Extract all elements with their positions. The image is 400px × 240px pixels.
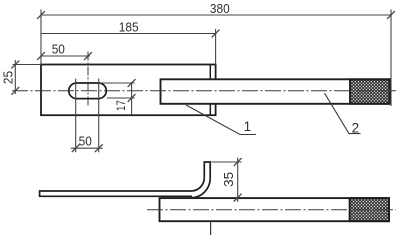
- dimension 185: [41, 30, 220, 38]
- extension line left (x=41): [40, 10, 42, 65]
- svg-text:185: 185: [119, 19, 139, 34]
- side view: bend inner arc: [191, 178, 204, 191]
- svg-text:50: 50: [52, 41, 65, 56]
- side view: bent tab: [204, 162, 210, 178]
- slot vertical centerline: [87, 52, 89, 106]
- slot (oval hole in plate): [69, 83, 107, 99]
- bent tab inner edge (top view): [209, 65, 211, 116]
- knurled end of rod (top view): [350, 79, 390, 104]
- svg-text:35: 35: [221, 172, 236, 187]
- svg-text:2: 2: [352, 121, 360, 136]
- side view: plate strip (part 1): [40, 191, 192, 196]
- dimension 25 (plate half-height): [11, 60, 41, 95]
- leader line for part 1 (top view): [186, 105, 256, 135]
- extension line right (x=391): [390, 10, 392, 107]
- leader line for part 1 (side view): [210, 221, 212, 235]
- leader line for part 2 (top view): [325, 93, 361, 133]
- side view: horizontal centerline: [147, 209, 396, 211]
- dimension 50 (slot length, bottom): [71, 79, 103, 153]
- rod (part 2, top view): [161, 79, 390, 104]
- dimension 17 (slot width): [100, 79, 136, 115]
- svg-text:17: 17: [116, 100, 128, 111]
- svg-text:50: 50: [79, 133, 92, 148]
- dimension 50 (slot position, top): [37, 52, 92, 60]
- side view: rod (part 2): [160, 198, 390, 221]
- dimension 380: [37, 11, 395, 19]
- svg-text:25: 25: [0, 71, 15, 84]
- svg-text:380: 380: [210, 1, 230, 16]
- dimension 35 (tab height, side view): [212, 158, 242, 202]
- side view: knurled end of rod: [350, 198, 389, 221]
- extension line for 185 (x=215.6): [215, 29, 217, 65]
- side view: bend outer arc: [191, 178, 211, 198]
- svg-text:1: 1: [244, 119, 252, 134]
- plate (part 1 body, top view): [41, 65, 216, 116]
- horizontal centerline (top view): [12, 90, 396, 92]
